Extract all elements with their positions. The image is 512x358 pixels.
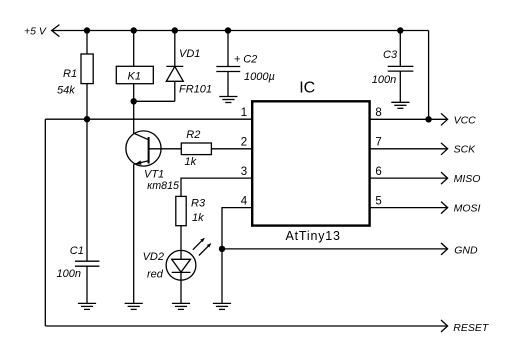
wire +5V rail [52, 30, 429, 32]
resistor R1 [81, 54, 93, 84]
svg-text:red: red [147, 269, 164, 281]
wire GND line [222, 248, 448, 250]
svg-text:RESET: RESET [453, 322, 490, 334]
svg-text:VD2: VD2 [143, 251, 164, 263]
capacitor C3 [388, 31, 414, 72]
node C2 top [225, 27, 231, 33]
label 54k [57, 85, 75, 97]
transistor VT1 [126, 131, 161, 166]
svg-text:+5 V: +5 V [24, 26, 47, 38]
svg-text:R3: R3 [191, 198, 206, 210]
op-amp IC box AtTiny13 [252, 101, 369, 225]
label AtTiny13 [286, 229, 341, 243]
pin 6 label [375, 166, 381, 178]
svg-text:7: 7 [375, 137, 381, 149]
svg-text:4: 4 [241, 195, 248, 207]
label + C2 [234, 54, 257, 66]
label 1k R2 [185, 156, 197, 168]
wire collector [133, 101, 135, 133]
node C3 top [397, 27, 403, 33]
LED arrows [193, 238, 211, 255]
label +5 V [24, 26, 47, 38]
wire rail right drop to VCC [428, 31, 430, 120]
svg-text:C2: C2 [243, 54, 257, 66]
label VD2 [143, 251, 164, 263]
wire C3 to ground [399, 71, 401, 102]
relay K1 [116, 66, 153, 83]
label red [147, 269, 164, 281]
label 100n C1 [57, 268, 81, 280]
svg-text:6: 6 [375, 166, 381, 178]
svg-text:MISO: MISO [454, 173, 481, 185]
ground pin4 [213, 303, 231, 309]
label 1000u [244, 71, 275, 83]
label VD1 [179, 48, 200, 60]
wire K1 bottom lead [133, 84, 135, 102]
svg-text:GND: GND [454, 244, 478, 256]
svg-text:VT1: VT1 [144, 168, 164, 180]
wire pin3 [181, 178, 252, 196]
LED VD2 [166, 250, 196, 280]
svg-text:100n: 100n [57, 268, 81, 280]
svg-text:1k: 1k [192, 212, 204, 224]
wire K1 top lead [133, 31, 135, 67]
wire R2 to pin2 [211, 148, 252, 150]
capacitor C2 [216, 31, 240, 72]
wire pin6 MISO [370, 177, 448, 179]
pin 5 label [375, 195, 381, 207]
svg-text:MOSI: MOSI [454, 203, 481, 215]
pin 8 label [375, 107, 381, 119]
label R2 [186, 129, 200, 141]
svg-text:1000µ: 1000µ [244, 71, 275, 83]
label xm815 [147, 180, 179, 192]
svg-text:IC: IC [299, 80, 315, 97]
wire VD1 to K1 junction [134, 100, 175, 102]
svg-text:3: 3 [241, 166, 247, 178]
svg-text:VD1: VD1 [179, 48, 200, 60]
wire R1 to C1 [86, 119, 88, 261]
arrow RESET [441, 320, 448, 332]
+5V arrow [52, 25, 60, 37]
label C1 [70, 245, 84, 257]
node K1/VD1 junction [131, 98, 137, 104]
pin 1 label [241, 107, 247, 119]
svg-text:8: 8 [375, 107, 381, 119]
svg-text:5: 5 [375, 195, 381, 207]
ground VD2 [172, 303, 190, 309]
label GND [454, 244, 478, 256]
wire pin7 SCK [370, 148, 448, 150]
pin 4 label [241, 195, 248, 207]
label 100n C3 [372, 74, 396, 86]
wire LED to ground [180, 272, 182, 303]
wire base [149, 148, 182, 150]
svg-text:1k: 1k [185, 156, 197, 168]
label C3 [383, 49, 398, 61]
node VD1 top [172, 27, 178, 33]
svg-text:FR101: FR101 [179, 83, 212, 95]
label 1k R3 [192, 212, 204, 224]
wire pin5 MOSI [370, 207, 448, 209]
capacitor C1 [75, 261, 99, 266]
svg-text:2: 2 [241, 137, 247, 149]
arrow SCK [441, 143, 448, 155]
label R3 [191, 198, 206, 210]
svg-text:C3: C3 [383, 49, 398, 61]
label FR101 [179, 83, 212, 95]
ground C2 [219, 97, 237, 103]
label MISO [454, 173, 481, 185]
wire VD1 top lead [174, 31, 176, 67]
svg-text:100n: 100n [372, 74, 396, 86]
arrow MISO [441, 172, 448, 184]
wire pin1 [45, 118, 252, 120]
arrow GND [441, 243, 448, 255]
diode VD1 [166, 66, 183, 81]
label IC [299, 80, 315, 97]
wire VCC arrow line [429, 118, 448, 120]
node GND junction [219, 246, 225, 252]
resistor R3 [176, 196, 186, 225]
svg-text:K1: K1 [128, 71, 141, 83]
wire emitter to ground [133, 164, 135, 303]
ground C1 [78, 303, 96, 309]
svg-text:SCK: SCK [454, 144, 477, 156]
label VT1 [144, 168, 164, 180]
svg-text:+: + [234, 54, 241, 66]
resistor R2 [181, 143, 211, 155]
node R1 bottom junction [84, 116, 90, 122]
svg-text:R1: R1 [63, 68, 77, 80]
node VCC junction [425, 116, 431, 122]
pin 7 label [375, 137, 381, 149]
label K1 [128, 71, 141, 83]
wire reset drop [44, 119, 46, 326]
ground VT1 [125, 303, 143, 309]
pin 2 label [241, 137, 247, 149]
wire R1 bottom lead [86, 84, 88, 120]
wire R3 to LED [180, 226, 182, 260]
wire R1 top lead [86, 31, 88, 55]
svg-text:R2: R2 [186, 129, 200, 141]
wire pin8 [370, 118, 429, 120]
node R1 top [84, 27, 90, 33]
svg-text:54k: 54k [57, 85, 75, 97]
wire reset line [45, 325, 447, 327]
arrow VCC [441, 113, 448, 125]
svg-text:кт815: кт815 [147, 180, 179, 192]
svg-text:VCC: VCC [454, 114, 477, 126]
label VCC [454, 114, 477, 126]
label MOSI [454, 203, 481, 215]
ground C3 [391, 102, 409, 108]
wire pin4 [222, 208, 252, 304]
svg-text:AtTiny13: AtTiny13 [286, 229, 341, 243]
wire VD1 bottom lead [174, 81, 176, 101]
svg-text:1: 1 [241, 107, 247, 119]
wire C2 to ground [227, 72, 229, 97]
svg-text:C1: C1 [70, 245, 84, 257]
node K1 top [131, 27, 137, 33]
label R1 [63, 68, 77, 80]
label SCK [454, 144, 477, 156]
wire C1 to ground [86, 266, 88, 303]
pin 3 label [241, 166, 247, 178]
label RESET [453, 322, 490, 334]
arrow MOSI [441, 202, 448, 214]
